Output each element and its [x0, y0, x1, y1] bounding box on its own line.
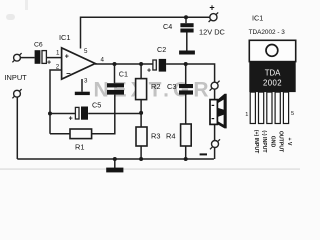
- svg-text:IC1: IC1: [252, 14, 263, 23]
- leg pin3: [267, 92, 272, 123]
- svg-text:+: +: [209, 2, 214, 12]
- svg-text:3: 3: [84, 77, 88, 84]
- wire R1 row left: [50, 133, 70, 135]
- svg-text:4: 4: [101, 57, 105, 64]
- wire R4 to rail: [185, 146, 187, 159]
- wire C5 row left: [50, 113, 75, 115]
- svg-text:5: 5: [291, 111, 294, 117]
- svg-text:TDA: TDA: [265, 69, 281, 78]
- resistor R1: [70, 129, 92, 152]
- node pin2-C5: [48, 112, 52, 116]
- wire output row: [95, 63, 153, 65]
- wire pin3 stem: [81, 79, 83, 92]
- svg-text:(-) INPUT: (-) INPUT: [261, 130, 267, 153]
- wire R1 row right: [92, 95, 115, 134]
- wire R2 to R3: [140, 100, 142, 127]
- svg-text:1: 1: [56, 50, 60, 57]
- svg-text:R2: R2: [151, 82, 160, 91]
- node rail-R3: [139, 157, 143, 161]
- wire C3 stem top: [185, 64, 187, 84]
- wire input2 down: [16, 97, 18, 159]
- ground (pin3): [75, 92, 90, 95]
- leg pin4: [275, 92, 280, 123]
- speaker terminal bottom: [210, 139, 220, 149]
- node rail-R4: [184, 157, 188, 161]
- wire bottom rail: [17, 158, 214, 160]
- input terminal J1: [12, 53, 21, 62]
- svg-text:C3: C3: [167, 82, 176, 91]
- capacitor C1: [107, 69, 128, 94]
- wire pin2 left and down: [50, 70, 62, 134]
- speaker LS1: [210, 94, 227, 129]
- svg-text:C4: C4: [163, 22, 172, 31]
- wire C4 stem: [185, 17, 187, 23]
- wire C3 to R4: [185, 95, 187, 125]
- IC pin legs: [250, 92, 288, 123]
- IC package tab: [249, 40, 295, 61]
- IC package body TDA2002: [249, 62, 295, 93]
- capacitor C2: [147, 45, 166, 75]
- wire C6 to pin1: [47, 57, 62, 59]
- svg-text:R1: R1: [75, 143, 84, 152]
- power terminal +12V: [209, 2, 219, 22]
- wire C2 to speaker corner: [166, 64, 215, 82]
- svg-text:R3: R3: [151, 132, 160, 141]
- node rail-ground: [113, 157, 117, 161]
- svg-text:R4: R4: [166, 132, 175, 141]
- resistor R3: [136, 127, 160, 146]
- op-amp IC1 triangle: [62, 48, 96, 79]
- resistor R4: [166, 124, 191, 146]
- svg-text:C6: C6: [34, 42, 43, 49]
- svg-text:INPUT: INPUT: [5, 73, 28, 82]
- wire ground stem: [114, 159, 116, 168]
- minus mark near bottom terminal: [200, 153, 207, 155]
- node junction dots: [48, 15, 188, 161]
- wire R3 to rail: [140, 146, 142, 159]
- svg-text:5: 5: [84, 48, 88, 55]
- leg pin2: [259, 92, 264, 123]
- svg-text:C2: C2: [157, 45, 166, 54]
- ground (C4): [179, 51, 195, 55]
- wire C4 to ground: [186, 32, 188, 50]
- wire speaker top: [214, 89, 216, 99]
- resistor R2: [136, 79, 161, 100]
- svg-text:+: +: [147, 68, 151, 75]
- wire R2 stem top: [140, 64, 142, 79]
- node rail-C4: [184, 15, 188, 19]
- svg-text:GND: GND: [269, 136, 275, 148]
- svg-text:C5: C5: [92, 101, 101, 110]
- node output-C3: [184, 62, 188, 66]
- capacitor C3: [167, 82, 193, 95]
- scan streak bottom: [0, 168, 300, 170]
- capacitor C5: [69, 101, 102, 123]
- wire C1 stem: [114, 64, 116, 83]
- svg-text:–: –: [66, 69, 71, 78]
- svg-text:OUTPUT: OUTPUT: [278, 131, 284, 153]
- wire C5 row right: [88, 113, 141, 115]
- wire input to C6: [21, 57, 35, 59]
- wire top rail: [81, 17, 210, 48]
- svg-text:TDA2002 - 3: TDA2002 - 3: [249, 29, 286, 36]
- node C5-R2: [139, 111, 143, 115]
- leg pin5: [283, 92, 288, 123]
- ground (rail): [106, 168, 123, 173]
- speaker terminal top: [210, 81, 220, 91]
- svg-text:2002: 2002: [263, 79, 282, 88]
- svg-text:+: +: [65, 53, 69, 60]
- svg-text:IC1: IC1: [59, 33, 71, 42]
- svg-text:(+) INPUT: (+) INPUT: [253, 130, 259, 154]
- svg-text:C1: C1: [119, 69, 128, 78]
- svg-text:2: 2: [56, 64, 60, 71]
- wire bottom terminal to rail: [214, 147, 216, 159]
- capacitor C4: [163, 22, 194, 33]
- scan smudge top-left: [6, 14, 15, 20]
- leg pin1: [250, 92, 255, 123]
- svg-text:+ V: + V: [286, 138, 292, 146]
- node output-C1: [113, 62, 117, 66]
- capacitor C6: [34, 42, 51, 67]
- svg-text:+: +: [69, 115, 73, 122]
- wire speaker bottom: [214, 124, 216, 140]
- svg-text:1: 1: [245, 112, 248, 118]
- node output-R2: [139, 62, 143, 66]
- svg-text:12V DC: 12V DC: [199, 27, 226, 36]
- svg-text:+: +: [47, 59, 51, 66]
- input terminal J2: [12, 89, 21, 98]
